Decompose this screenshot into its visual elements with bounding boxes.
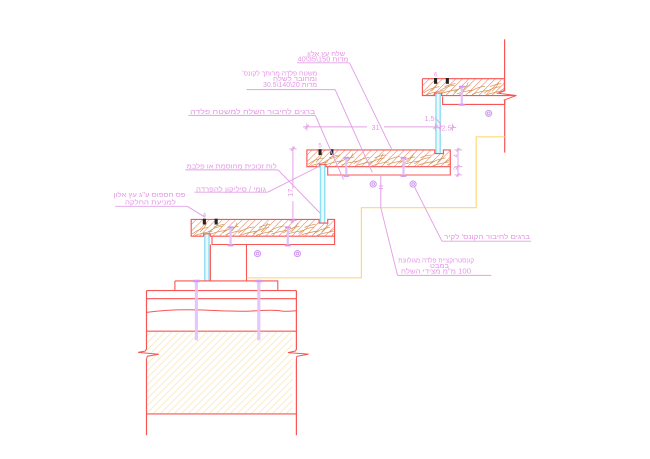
svg-text:17: 17 [286, 189, 295, 197]
svg-text:למניעת החלקה: למניעת החלקה [125, 198, 176, 206]
svg-text:לוח זכוכית מחוסמת או פלבמ: לוח זכוכית מחוסמת או פלבמ [187, 163, 277, 171]
svg-text:2.5: 2.5 [442, 123, 452, 132]
svg-text:100 מ"מ מצידי השלח: 100 מ"מ מצידי השלח [401, 268, 471, 276]
svg-text:פס חספוס ע"ג עץ אלון: פס חספוס ע"ג עץ אלון [114, 191, 186, 199]
svg-text:6: 6 [434, 73, 438, 79]
svg-text:4: 4 [454, 153, 460, 157]
svg-text:ברגים לחיבור הקונס' לקיר: ברגים לחיבור הקונס' לקיר [444, 233, 530, 241]
svg-text:5: 5 [318, 144, 322, 150]
svg-text:מדות 20\140\30.5: מדות 20\140\30.5 [263, 82, 317, 89]
svg-text:31: 31 [371, 123, 379, 132]
svg-text:1.5: 1.5 [425, 114, 435, 123]
svg-text:ברגים לחיבור השלח למשטח פלדה: ברגים לחיבור השלח למשטח פלדה [190, 108, 315, 116]
